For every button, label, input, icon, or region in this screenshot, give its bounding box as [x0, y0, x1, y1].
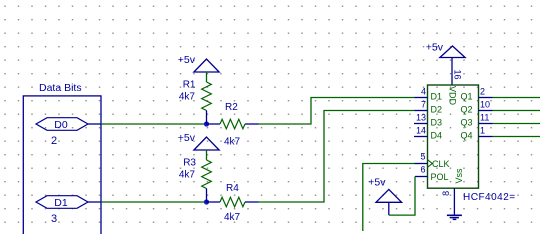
svg-text:Data Bits: Data Bits [39, 82, 82, 94]
svg-text:Q2: Q2 [460, 105, 472, 115]
svg-text:HCF4042=: HCF4042= [463, 192, 516, 203]
svg-text:CLK: CLK [432, 159, 450, 169]
svg-text:D4: D4 [431, 131, 443, 141]
pin stub POL [415, 176, 428, 178]
svg-text:16: 16 [452, 69, 462, 79]
pin stub D2 [415, 110, 428, 112]
svg-text:14: 14 [416, 126, 426, 136]
svg-text:11: 11 [480, 113, 489, 123]
pin stub D1 [415, 97, 428, 99]
svg-text:4k7: 4k7 [179, 170, 196, 181]
pin stub D4 [414, 136, 428, 138]
wire R2 to IC pin D1 [259, 98, 415, 125]
wire D0 net [101, 123, 207, 125]
ground [447, 215, 462, 219]
IC U1 HCF4042 body [428, 85, 479, 188]
svg-text:4k7: 4k7 [179, 92, 196, 103]
pin stub Q4 [479, 136, 493, 138]
junction node D0 [204, 121, 209, 126]
svg-text:5: 5 [420, 152, 425, 162]
wire VDD to IC pin 16 [451, 58, 453, 86]
wire Q4 [493, 136, 540, 138]
wire CLK [363, 164, 415, 232]
svg-text:+5v: +5v [178, 132, 196, 144]
svg-text:2: 2 [51, 135, 57, 147]
svg-text:4k7: 4k7 [224, 212, 241, 223]
pin VSS line [453, 188, 455, 214]
wire R4 to IC pin D2 [259, 111, 415, 203]
svg-text:VDD: VDD [448, 86, 458, 106]
svg-text:+5v: +5v [178, 54, 196, 66]
svg-text:6: 6 [420, 165, 425, 175]
svg-text:Q3: Q3 [460, 118, 472, 128]
pin stub Q3 [479, 123, 493, 125]
svg-text:4: 4 [421, 87, 426, 97]
svg-text:8: 8 [441, 191, 451, 196]
svg-text:D1: D1 [54, 197, 68, 209]
pin stub Q2 [479, 110, 493, 112]
svg-text:D2: D2 [431, 105, 443, 115]
power +5v (R1 pullup) [178, 54, 219, 82]
svg-text:Q4: Q4 [460, 131, 472, 141]
resistor R2 [207, 102, 259, 148]
svg-text:7: 7 [421, 100, 426, 110]
junction node D1 [204, 199, 209, 204]
resistor R3 [179, 158, 211, 203]
svg-text:3: 3 [51, 213, 57, 225]
power +5v (VDD top) [426, 42, 465, 58]
svg-text:Vss: Vss [454, 168, 464, 184]
pin stub D3 [414, 123, 428, 125]
svg-text:+5v: +5v [426, 42, 444, 54]
pin stub CLK [415, 163, 428, 165]
pin stub Q1 [479, 97, 493, 99]
power +5v (R3 pullup) [178, 132, 219, 160]
svg-text:R4: R4 [226, 183, 239, 194]
svg-text:R3: R3 [183, 158, 196, 169]
svg-text:D3: D3 [431, 118, 443, 128]
svg-text:10: 10 [480, 100, 490, 110]
wire Q3 [493, 123, 540, 125]
port D0 [36, 118, 101, 131]
wire Q1 [493, 97, 540, 99]
power +5v (POL) [368, 177, 401, 216]
svg-text:POL: POL [431, 172, 449, 182]
resistor R4 [207, 183, 259, 223]
svg-text:13: 13 [416, 113, 426, 123]
svg-text:2: 2 [480, 87, 485, 97]
wire D1 net [101, 201, 207, 203]
svg-text:+5v: +5v [368, 177, 386, 189]
pin CLK label with clock chevron [428, 159, 450, 169]
port D1 [36, 196, 101, 209]
svg-text:R1: R1 [183, 80, 196, 91]
svg-text:Q1: Q1 [460, 92, 472, 102]
Data Bits box [23, 96, 101, 236]
svg-text:4k7: 4k7 [224, 137, 241, 148]
svg-text:R2: R2 [225, 102, 238, 113]
svg-text:1: 1 [480, 126, 485, 136]
svg-text:D0: D0 [54, 119, 68, 131]
resistor R1 [179, 80, 211, 125]
wire Q2 [493, 110, 540, 112]
wire POL [389, 177, 415, 216]
svg-text:D1: D1 [431, 92, 443, 102]
